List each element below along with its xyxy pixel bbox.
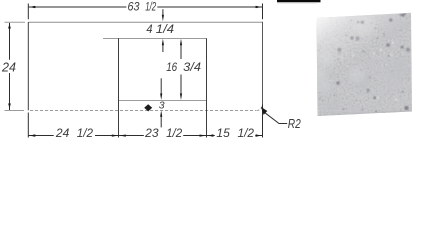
svg-text:1/4: 1/4 <box>156 24 174 36</box>
svg-text:16: 16 <box>166 62 178 74</box>
svg-text:23: 23 <box>144 128 159 140</box>
svg-text:3: 3 <box>159 99 165 111</box>
svg-text:24: 24 <box>1 59 16 74</box>
svg-text:R2: R2 <box>288 117 301 131</box>
svg-text:63: 63 <box>128 2 141 14</box>
svg-text:3/4: 3/4 <box>183 62 201 74</box>
svg-text:15: 15 <box>216 128 230 140</box>
svg-text:24: 24 <box>55 128 69 140</box>
svg-text:4: 4 <box>146 24 152 36</box>
svg-text:1/2: 1/2 <box>145 2 156 14</box>
svg-text:1/2: 1/2 <box>166 128 183 140</box>
svg-text:1/2: 1/2 <box>77 128 94 140</box>
svg-text:1/2: 1/2 <box>238 128 255 140</box>
